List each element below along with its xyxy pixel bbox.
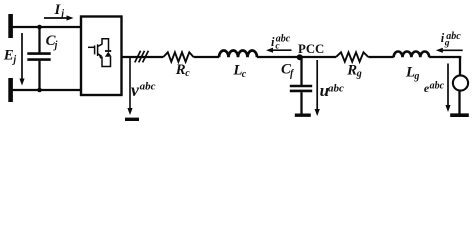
svg-text:abc: abc [328, 82, 344, 94]
svg-text:g: g [356, 69, 362, 80]
svg-text:abc: abc [140, 81, 156, 93]
svg-text:abc: abc [430, 81, 445, 92]
svg-text:i: i [271, 35, 275, 49]
svg-text:R: R [175, 62, 186, 78]
svg-text:PCC: PCC [298, 42, 324, 56]
svg-text:c: c [185, 68, 190, 79]
svg-text:g: g [413, 71, 419, 82]
svg-text:v: v [131, 80, 139, 100]
svg-text:R: R [346, 62, 357, 78]
svg-text:abc: abc [276, 33, 291, 44]
svg-text:abc: abc [446, 31, 461, 42]
svg-text:E: E [3, 48, 14, 64]
svg-text:c: c [242, 69, 247, 80]
